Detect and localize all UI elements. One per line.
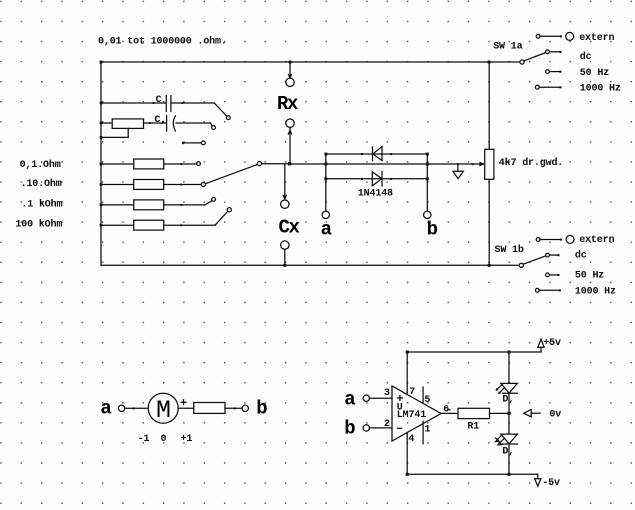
SW1b stub 1000Hz [539, 289, 560, 291]
SW1b stub extern [540, 239, 561, 241]
wire bus tap step vertical [127, 128, 129, 137]
LED D2 cathode bar [502, 443, 517, 445]
wire dot row1 [180, 163, 182, 165]
LED D2 triangle [501, 434, 517, 444]
svg-text:+1: +1 [181, 434, 193, 445]
svg-text:C: C [156, 95, 162, 106]
wire dot row2 [180, 184, 182, 186]
LED D1 arrow 2 [500, 388, 505, 393]
svg-text:M: M [156, 396, 171, 425]
node meter right terminal [242, 405, 248, 411]
wire resistor to right terminal [225, 407, 242, 409]
SW1b contact 1000Hz [535, 288, 539, 292]
diode D1 cathode bar [372, 147, 374, 161]
switch lever row3 [205, 201, 212, 205]
svg-text:+5v: +5v [543, 338, 561, 349]
wire bottom bus [101, 264, 520, 266]
svg-text:7: 7 [409, 387, 415, 398]
svg-text:1N4148: 1N4148 [358, 188, 393, 199]
svg-text:b: b [427, 219, 438, 241]
wire bus to resistor row2 [101, 184, 134, 186]
junction LED rail top [508, 351, 511, 354]
junction bus cap C [100, 102, 103, 105]
wire dot short stub left end [182, 142, 184, 144]
wire input a to opamp [370, 397, 393, 399]
switch contact row1 [197, 162, 201, 166]
wire bus to resistor row1 [101, 163, 134, 165]
svg-text:4k7 dr.gwd.: 4k7 dr.gwd. [499, 157, 563, 169]
svg-text:a: a [321, 219, 332, 241]
LED D1 triangle [501, 383, 517, 393]
svg-text:dc: dc [575, 249, 587, 261]
wire dot cap C row [153, 102, 155, 104]
svg-text:0,01 tot 1000000 .ohm.: 0,01 tot 1000000 .ohm. [98, 36, 227, 48]
wire diode bottom row [326, 178, 428, 180]
resistor R1 [458, 408, 490, 418]
diode D2 lead dots [361, 178, 363, 180]
svg-text:6: 6 [443, 405, 449, 416]
junction mid node [288, 162, 291, 165]
wire dot row3 [180, 204, 182, 206]
svg-text:.1 kOhm: .1 kOhm [21, 198, 62, 210]
switch lever cap C row [215, 103, 227, 116]
LED D2 arrow 2 [499, 438, 505, 444]
wire dot at ground stem [457, 163, 459, 165]
wire resistor row3 to lever [164, 204, 205, 206]
SW1b extern terminal circle [566, 235, 574, 243]
switch SW1a common circle [520, 60, 524, 64]
node meter left terminal [118, 405, 124, 411]
switch contact C2 row [212, 126, 216, 130]
switch contact short stub [201, 141, 205, 145]
svg-text:0,1.Ohm: 0,1.Ohm [20, 159, 61, 171]
svg-text:0v: 0v [549, 409, 561, 420]
wire opamp output [441, 412, 458, 414]
svg-text:SW 1a: SW 1a [493, 41, 522, 52]
svg-text:D,: D, [502, 394, 514, 405]
resistor 0,1 Ohm [134, 159, 164, 169]
junction diode left rail bottom [324, 177, 327, 180]
wire resistor row4 to lever [164, 224, 215, 226]
junction LED rail mid [507, 412, 510, 415]
svg-text:extern: extern [579, 33, 614, 44]
SW1a stub 50Hz [549, 71, 560, 73]
svg-text:dc: dc [580, 51, 592, 63]
SW1a contact 50Hz [546, 70, 550, 74]
junction diode left rail mid [324, 163, 327, 166]
svg-text:a: a [344, 388, 355, 410]
junction diode right rail mid [426, 163, 429, 166]
node a terminal circle [322, 211, 329, 218]
wire Rx bottom to mid node [289, 128, 291, 164]
arrowhead on Rx top drop [288, 74, 291, 77]
SW1b stub dc [549, 254, 558, 256]
ground stem [457, 164, 459, 171]
switch contact row4 [227, 208, 231, 212]
junction Cx on bottom bus [283, 264, 286, 267]
wire R1 to LED rail [490, 412, 510, 414]
svg-text:Rx: Rx [277, 93, 298, 115]
junction bus cap C2 row [100, 122, 103, 125]
junction bus resistor row1 [100, 163, 103, 166]
ground symbol triangle [453, 171, 463, 178]
switch SW1a lever to dc [524, 53, 546, 61]
svg-text:D,: D, [502, 446, 514, 457]
LED D1 arrow 1 [498, 384, 503, 389]
junction bus resistor row4 [100, 224, 103, 227]
wire diode top row [326, 153, 428, 155]
wire mid node to diodes and pot [290, 163, 485, 165]
opamp plus sign [398, 397, 403, 399]
svg-text:R1: R1 [467, 422, 479, 433]
svg-text:50 Hz: 50 Hz [575, 271, 604, 282]
svg-text:extern: extern [579, 235, 614, 246]
node Cx bottom terminal circle [281, 241, 289, 249]
junction diode right rail top [426, 153, 429, 156]
junction diode left rail top [324, 153, 327, 156]
wire resistor row1 to contact [164, 163, 197, 165]
wire resistor row2 to contact [164, 184, 202, 186]
wire Cx drop [284, 164, 286, 200]
svg-text:SW 1b: SW 1b [495, 244, 524, 256]
wire Cx bottom to bus [284, 249, 286, 265]
junction top-left corner [100, 61, 103, 64]
wire bus to resistor row3 [101, 204, 134, 206]
capacitor C wire from bus [101, 102, 166, 104]
svg-text:-1: -1 [138, 434, 150, 445]
wire pin7 [406, 352, 408, 395]
switch pivot circle [257, 162, 261, 166]
capacitor C2 straight plate [166, 116, 168, 132]
wire opamp bottom supply [407, 473, 538, 475]
resistor 1 kOhm [134, 200, 164, 210]
op-amp U1 LM741 triangle [392, 386, 441, 441]
svg-text:1000 Hz: 1000 Hz [575, 286, 616, 297]
opamp minus sign [398, 427, 402, 429]
node b terminal circle [424, 211, 431, 218]
svg-text:b: b [256, 398, 267, 420]
wire resistor to cap C2 [144, 122, 166, 124]
switch contact cap C row [226, 116, 230, 120]
wire dot near pot [472, 163, 474, 165]
node Cx top terminal circle [281, 200, 289, 208]
arrowhead on Cx drop [283, 195, 286, 199]
junction bus resistor row3 [100, 204, 103, 207]
switch lever row4 [215, 211, 228, 225]
junction diode right rail bottom [426, 177, 429, 180]
wire opamp top supply [407, 351, 541, 353]
arrowhead -5v [535, 479, 541, 486]
arrowhead +5v [538, 339, 544, 347]
capacitor C2 curved plate [173, 116, 175, 131]
wire bus to resistor row4 [101, 224, 134, 226]
capacitor C plates [165, 96, 167, 112]
junction Rx tap on top bus [289, 61, 292, 64]
wire pivot to Rx node [262, 163, 290, 165]
pin5 stub [422, 387, 424, 402]
svg-text:b: b [344, 418, 355, 440]
wire dot meter right [234, 407, 236, 409]
SW1a contact 1000Hz [535, 85, 539, 89]
wire bus to resistor of C2 row [101, 122, 112, 124]
resistor series with C2 [112, 119, 143, 128]
SW1a stub dc [549, 51, 560, 53]
svg-text:4: 4 [408, 434, 414, 445]
svg-text:1: 1 [424, 425, 430, 436]
wire terminal to meter [125, 407, 148, 409]
wire 0v [531, 412, 540, 414]
wire diode left rail [325, 154, 327, 211]
svg-text:LM741: LM741 [397, 410, 426, 421]
switch lever C2 row [211, 123, 213, 126]
svg-text:a: a [100, 397, 111, 419]
junction pin4 bottom [406, 473, 409, 476]
wiper arrowhead into pot [479, 162, 484, 167]
junction bus tap row [100, 136, 103, 139]
riser -5v [537, 474, 539, 479]
wire pot bottom to bottom bus [488, 179, 490, 265]
wire input b to opamp [370, 427, 393, 429]
resistor 100 kOhm [134, 220, 164, 230]
SW1a contact dc [546, 50, 550, 54]
meter plus sign [181, 401, 186, 403]
wire dot C2 row [149, 122, 151, 124]
diode D1 lead dots [361, 153, 363, 155]
node Rx bottom terminal circle [286, 119, 294, 127]
svg-text:100 kOhm: 100 kOhm [15, 219, 62, 231]
node Rx top terminal drop wire [289, 64, 291, 78]
node opamp input b circle [363, 425, 369, 431]
switch SW1b lever to dc [523, 256, 546, 264]
junction LED rail bottom [508, 473, 511, 476]
node opamp input a circle [363, 395, 369, 401]
diode D1 triangle pointing left [373, 147, 382, 161]
LED D1 cathode bar [502, 392, 517, 394]
switch lever selected from row2 to pivot [205, 164, 257, 183]
wire meter to resistor [178, 407, 194, 409]
LED D2 arrow 1 [496, 435, 502, 441]
junction bus resistor row2 [100, 183, 103, 186]
svg-text:3: 3 [384, 388, 390, 399]
switch contact row2 [201, 182, 205, 186]
resistor 10 Ohm [134, 180, 164, 190]
switch SW1b common circle [519, 263, 523, 267]
svg-text:0: 0 [161, 434, 167, 445]
svg-text:50 Hz: 50 Hz [580, 68, 609, 79]
svg-text:5: 5 [424, 395, 430, 406]
pin1 stub [422, 421, 424, 443]
switch contact row3 [212, 198, 216, 202]
wire from SW1a junction down to pot [488, 62, 490, 149]
wire left bus vertical [100, 62, 102, 265]
svg-text:-5v: -5v [542, 478, 560, 489]
svg-text:.10.Ohm: .10.Ohm [21, 178, 62, 190]
potentiometer 4k7 body [485, 149, 494, 179]
node Rx top terminal circle [286, 78, 294, 86]
junction SW1a tap on top bus [488, 61, 491, 64]
wire diode right rail [426, 154, 428, 211]
svg-text:1000 Hz: 1000 Hz [580, 84, 621, 95]
wire cap C2 to switch [176, 122, 211, 124]
wire dot row4 [180, 224, 182, 226]
svg-text:C,: C, [154, 115, 166, 126]
meter M1 circle [148, 393, 178, 423]
arrowhead 0v pointing left [524, 410, 531, 417]
diode D2 triangle pointing right [372, 172, 382, 186]
SW1a extern terminal circle [566, 32, 574, 40]
dot after 6 [449, 409, 451, 411]
svg-text:2: 2 [384, 419, 390, 430]
wire pin4 [406, 432, 408, 474]
wire top bus [101, 61, 520, 63]
SW1a stub extern [540, 35, 561, 37]
wire short stub row [183, 142, 202, 144]
meter series resistor [194, 403, 225, 414]
SW1b contact 50Hz [546, 273, 550, 277]
arrowhead on Rx bottom wire [288, 130, 291, 134]
SW1a contact extern [536, 34, 540, 38]
svg-text:Cx: Cx [279, 217, 300, 239]
wire bus tap step horizontal [101, 136, 128, 138]
SW1b contact extern [536, 238, 540, 242]
junction pot on bottom bus [488, 264, 491, 267]
junction pin7 top [406, 351, 409, 354]
wire dot meter left [133, 407, 135, 409]
wire LED rail vertical [508, 352, 510, 474]
SW1a stub 1000Hz [539, 86, 560, 88]
SW1b stub 50Hz [549, 274, 558, 276]
riser +5v [540, 347, 542, 352]
wire cap C to switch [172, 102, 215, 104]
diode D2 cathode bar [381, 171, 383, 186]
SW1b contact dc [546, 253, 550, 257]
